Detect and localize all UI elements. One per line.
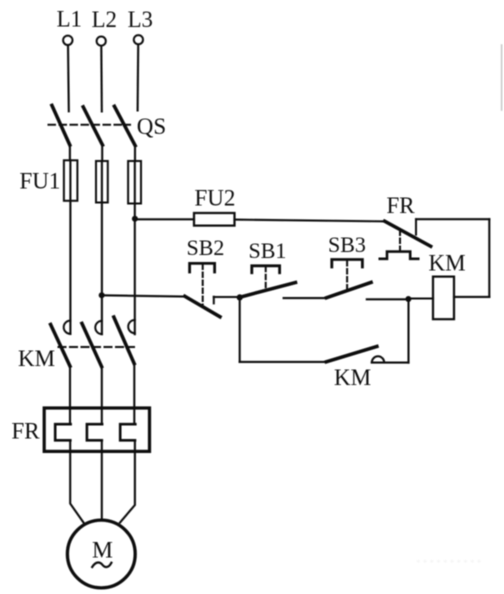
wire phase3 fuse to KM contact: [134, 161, 136, 334]
pushbutton SB1 label: [249, 238, 287, 263]
svg-text:FU1: FU1: [20, 168, 61, 193]
contactor KM coil: [433, 277, 454, 320]
contactor KM main contact arc pole 2: [95, 321, 102, 334]
node L3 label: [128, 7, 153, 32]
wire FR contact to right rail: [416, 218, 489, 220]
scan artifact gray edge line: [501, 45, 503, 110]
contactor KM main contact arc pole 3: [128, 320, 135, 333]
wire aux contact to right riser: [372, 362, 409, 364]
thermal relay FR heater box: [44, 408, 149, 451]
pushbutton SB3 actuator dashed line: [346, 261, 348, 289]
motor AC tilde: [92, 562, 111, 567]
pushbutton SB2 cap: [190, 263, 215, 272]
svg-text:L1: L1: [57, 6, 82, 31]
wire SB2 to node A: [214, 296, 240, 298]
wire QS pole2 to fuse FU1b: [101, 145, 103, 161]
thermal relay FR NC contact blade: [385, 221, 431, 246]
svg-text:QS: QS: [137, 114, 166, 139]
wire phase2 fuse to KM contact: [101, 161, 103, 334]
wire KM pole2 to FR heater: [101, 367, 103, 425]
svg-text:* * * * * * * * * *: * * * * * * * * * *: [416, 558, 482, 568]
wire heater2 to motor: [101, 440, 103, 520]
svg-text:FR: FR: [12, 419, 41, 444]
junction node control feed from L2: [99, 292, 105, 298]
switch QS linkage dashed line: [49, 124, 131, 126]
motor M circle: [67, 520, 135, 588]
wire L2 terminal to QS: [100, 46, 103, 112]
fuse FU2 label: [195, 185, 236, 210]
wire SB1 right terminal to SB3: [284, 297, 327, 299]
svg-text:KM: KM: [429, 251, 466, 276]
svg-text:KM: KM: [18, 346, 55, 371]
svg-text:KM: KM: [334, 365, 371, 390]
contactor KM main contact arc pole 1: [64, 321, 71, 334]
svg-text:SB3: SB3: [328, 232, 366, 257]
wire control bottom rail from L2 node to SB2: [102, 295, 185, 296]
wire heater3 to motor: [120, 440, 135, 522]
svg-text:SB2: SB2: [187, 235, 225, 260]
wire L1 terminal to QS: [67, 45, 70, 111]
wire phase1 fuse to KM contact: [69, 160, 71, 334]
contactor KM main blade pole 1: [51, 325, 70, 367]
pushbutton SB2 actuator dashed line: [202, 265, 204, 306]
fuse FU2 body: [194, 213, 235, 226]
pushbutton SB1 actuator dashed line: [265, 267, 267, 290]
wire right rail down: [488, 219, 490, 297]
node L2 label: [92, 7, 117, 32]
wire SB3 right terminal to node B: [367, 298, 409, 300]
terminal circle L1: [63, 36, 72, 45]
node L1 label: [57, 6, 82, 31]
contactor KM main blade pole 3: [114, 317, 134, 364]
SB2 right terminal stub: [213, 297, 215, 304]
wire heater1 to motor: [70, 440, 83, 522]
svg-text:SB1: SB1: [249, 238, 287, 263]
switch QS blade pole 2: [83, 107, 102, 145]
pushbutton SB3 cap: [332, 260, 363, 268]
pushbutton SB3 NO blade: [326, 282, 371, 297]
wire self-hold loop bottom left: [240, 361, 327, 363]
wire self-hold loop right riser: [407, 299, 409, 363]
FR contact actuator dashed line: [399, 231, 401, 252]
svg-text:M: M: [92, 537, 113, 563]
svg-text:FU2: FU2: [195, 185, 236, 210]
fuse FU1 pole 1 body: [64, 160, 78, 201]
KM auxiliary contact arc: [372, 356, 384, 362]
contactor KM main blade pole 2: [82, 323, 102, 366]
FR contact thermal element symbol: [380, 252, 418, 259]
wire QS pole3 to fuse FU1c: [134, 146, 136, 161]
junction node B right: [405, 296, 411, 302]
thermal relay FR label: [12, 419, 41, 444]
FR heater element 2: [87, 424, 102, 440]
terminal circle L2: [97, 37, 106, 46]
wire FU2 to FR contact: [235, 220, 386, 222]
contactor KM linkage dashed line: [59, 346, 135, 348]
pushbutton SB2 NC blade: [185, 296, 220, 317]
pushbutton SB1 NO blade: [240, 283, 296, 298]
switch QS blade pole 3: [114, 106, 135, 145]
fuse FU1 pole 3 body: [128, 161, 141, 204]
motor M letter: [92, 537, 113, 563]
contactor KM auxiliary label: [334, 365, 371, 390]
fuse FU1 pole 2 body: [96, 161, 108, 203]
svg-text:L3: L3: [128, 7, 153, 32]
wire node A down (self-hold loop left): [239, 297, 241, 362]
wire QS pole1 to fuse FU1a: [69, 145, 71, 160]
pushbutton SB1 cap: [252, 266, 280, 273]
wire KM coil left to junction: [409, 297, 434, 299]
wire L3 terminal to QS: [137, 45, 140, 111]
svg-text:L2: L2: [92, 7, 117, 32]
wire right rail to KM coil: [454, 296, 489, 298]
FR contact right terminal stub: [415, 219, 417, 234]
contactor KM coil label: [429, 251, 466, 276]
wire control top rail from L3 node to FU2: [135, 218, 194, 220]
FR heater element 1: [55, 424, 70, 440]
switch QS blade pole 1: [52, 105, 70, 145]
terminal circle L3: [134, 35, 143, 44]
wire KM pole3 to FR heater: [133, 364, 135, 425]
wire KM pole1 to FR heater: [69, 366, 71, 424]
switch QS label: [137, 114, 166, 139]
svg-text:FR: FR: [387, 193, 416, 218]
pushbutton SB2 label: [187, 235, 225, 260]
thermal relay FR contact label: [387, 193, 416, 218]
contactor KM main label: [18, 346, 55, 371]
fuse FU1 label: [20, 168, 61, 193]
contactor KM auxiliary NO blade: [326, 346, 377, 361]
faint watermark: [416, 558, 482, 568]
pushbutton SB3 label: [328, 232, 366, 257]
junction node control feed from L3: [132, 216, 138, 222]
FR heater element 3: [120, 424, 135, 440]
junction node A: [237, 294, 243, 300]
